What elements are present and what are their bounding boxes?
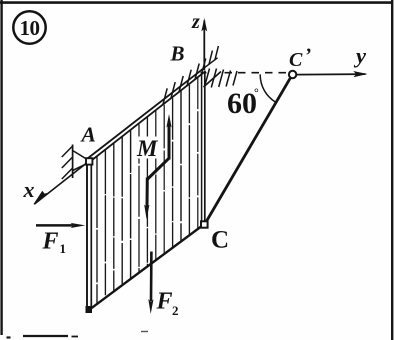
bottom small dash [72,336,79,338]
rod C C' [207,78,291,221]
support A: upper link to A [73,151,87,160]
svg-text:B: B [170,41,185,65]
svg-text:A: A [80,123,96,147]
svg-text:1: 1 [60,241,67,256]
plate left edge outer line [86,161,88,312]
svg-text:10: 10 [20,16,40,40]
plate bottom edge [87,227,202,312]
bottom faint mark center [141,331,148,333]
z axis arrowhead [201,18,207,32]
svg-text:C: C [211,227,229,254]
svg-text:F: F [156,289,173,315]
plate face hatching (vertical lines) [97,77,198,303]
plate corner blob bottom-left [86,306,93,313]
bottom tiny tick left [7,336,11,338]
x axis line [34,164,86,205]
svg-text:y: y [353,43,367,68]
wall hatching along AB near B [163,58,206,104]
wall hatching below dashed line right of corner [204,69,237,88]
bottom partial rule [23,335,68,337]
hinge point C (small square) [201,221,208,227]
couple M: up arrow shaft [168,124,171,160]
y axis arrowhead [353,71,367,77]
hinge point C' (circle) [289,71,296,78]
force F1 shaft [36,224,73,227]
support A: lower link to A [73,164,87,171]
svg-text:z: z [191,11,200,33]
support A: wall bar [72,145,74,179]
hinge point A (small square) [86,158,92,164]
support line extension beyond corner B [204,58,217,68]
force F1 arrowhead [71,223,86,228]
angle arc at C' [260,74,276,102]
plate top edge AB outer line [88,68,205,159]
svg-text:M: M [136,136,159,161]
svg-text:F: F [42,228,59,254]
couple M: jog segment [148,158,169,179]
plate top edge AB inner line [90,71,206,162]
svg-text:°: ° [254,86,259,100]
z axis [203,21,205,71]
dashed line from corner B to C' [225,72,290,74]
svg-text:’: ’ [305,45,312,67]
support A: hatch strokes [62,146,73,179]
couple M: down arrow shaft [146,178,149,208]
svg-text:x: x [23,177,35,202]
force F2 shaft [150,252,153,302]
x axis arrowhead [33,191,48,205]
svg-text:2: 2 [172,303,179,318]
plate right edge inner line [201,74,203,221]
dashed line stub at corner B [201,72,207,74]
svg-text:60: 60 [227,87,257,120]
page frame: left border [0,0,2,335]
wall hatching on extension above corner [209,46,218,64]
page frame: right border [391,0,393,340]
force F2 arrowhead [148,299,153,314]
figure number circle [13,11,45,43]
wall edge diagonal below corner B [204,72,222,88]
plate right edge outer line [204,71,206,222]
couple M: up arrowhead [166,114,171,128]
white backing for M label [136,137,163,159]
page frame: top border [0,1,392,4]
couple M: down arrowhead [144,205,149,220]
svg-text:C: C [289,49,303,71]
plate left edge inner line [90,165,92,309]
y axis line [297,73,366,76]
